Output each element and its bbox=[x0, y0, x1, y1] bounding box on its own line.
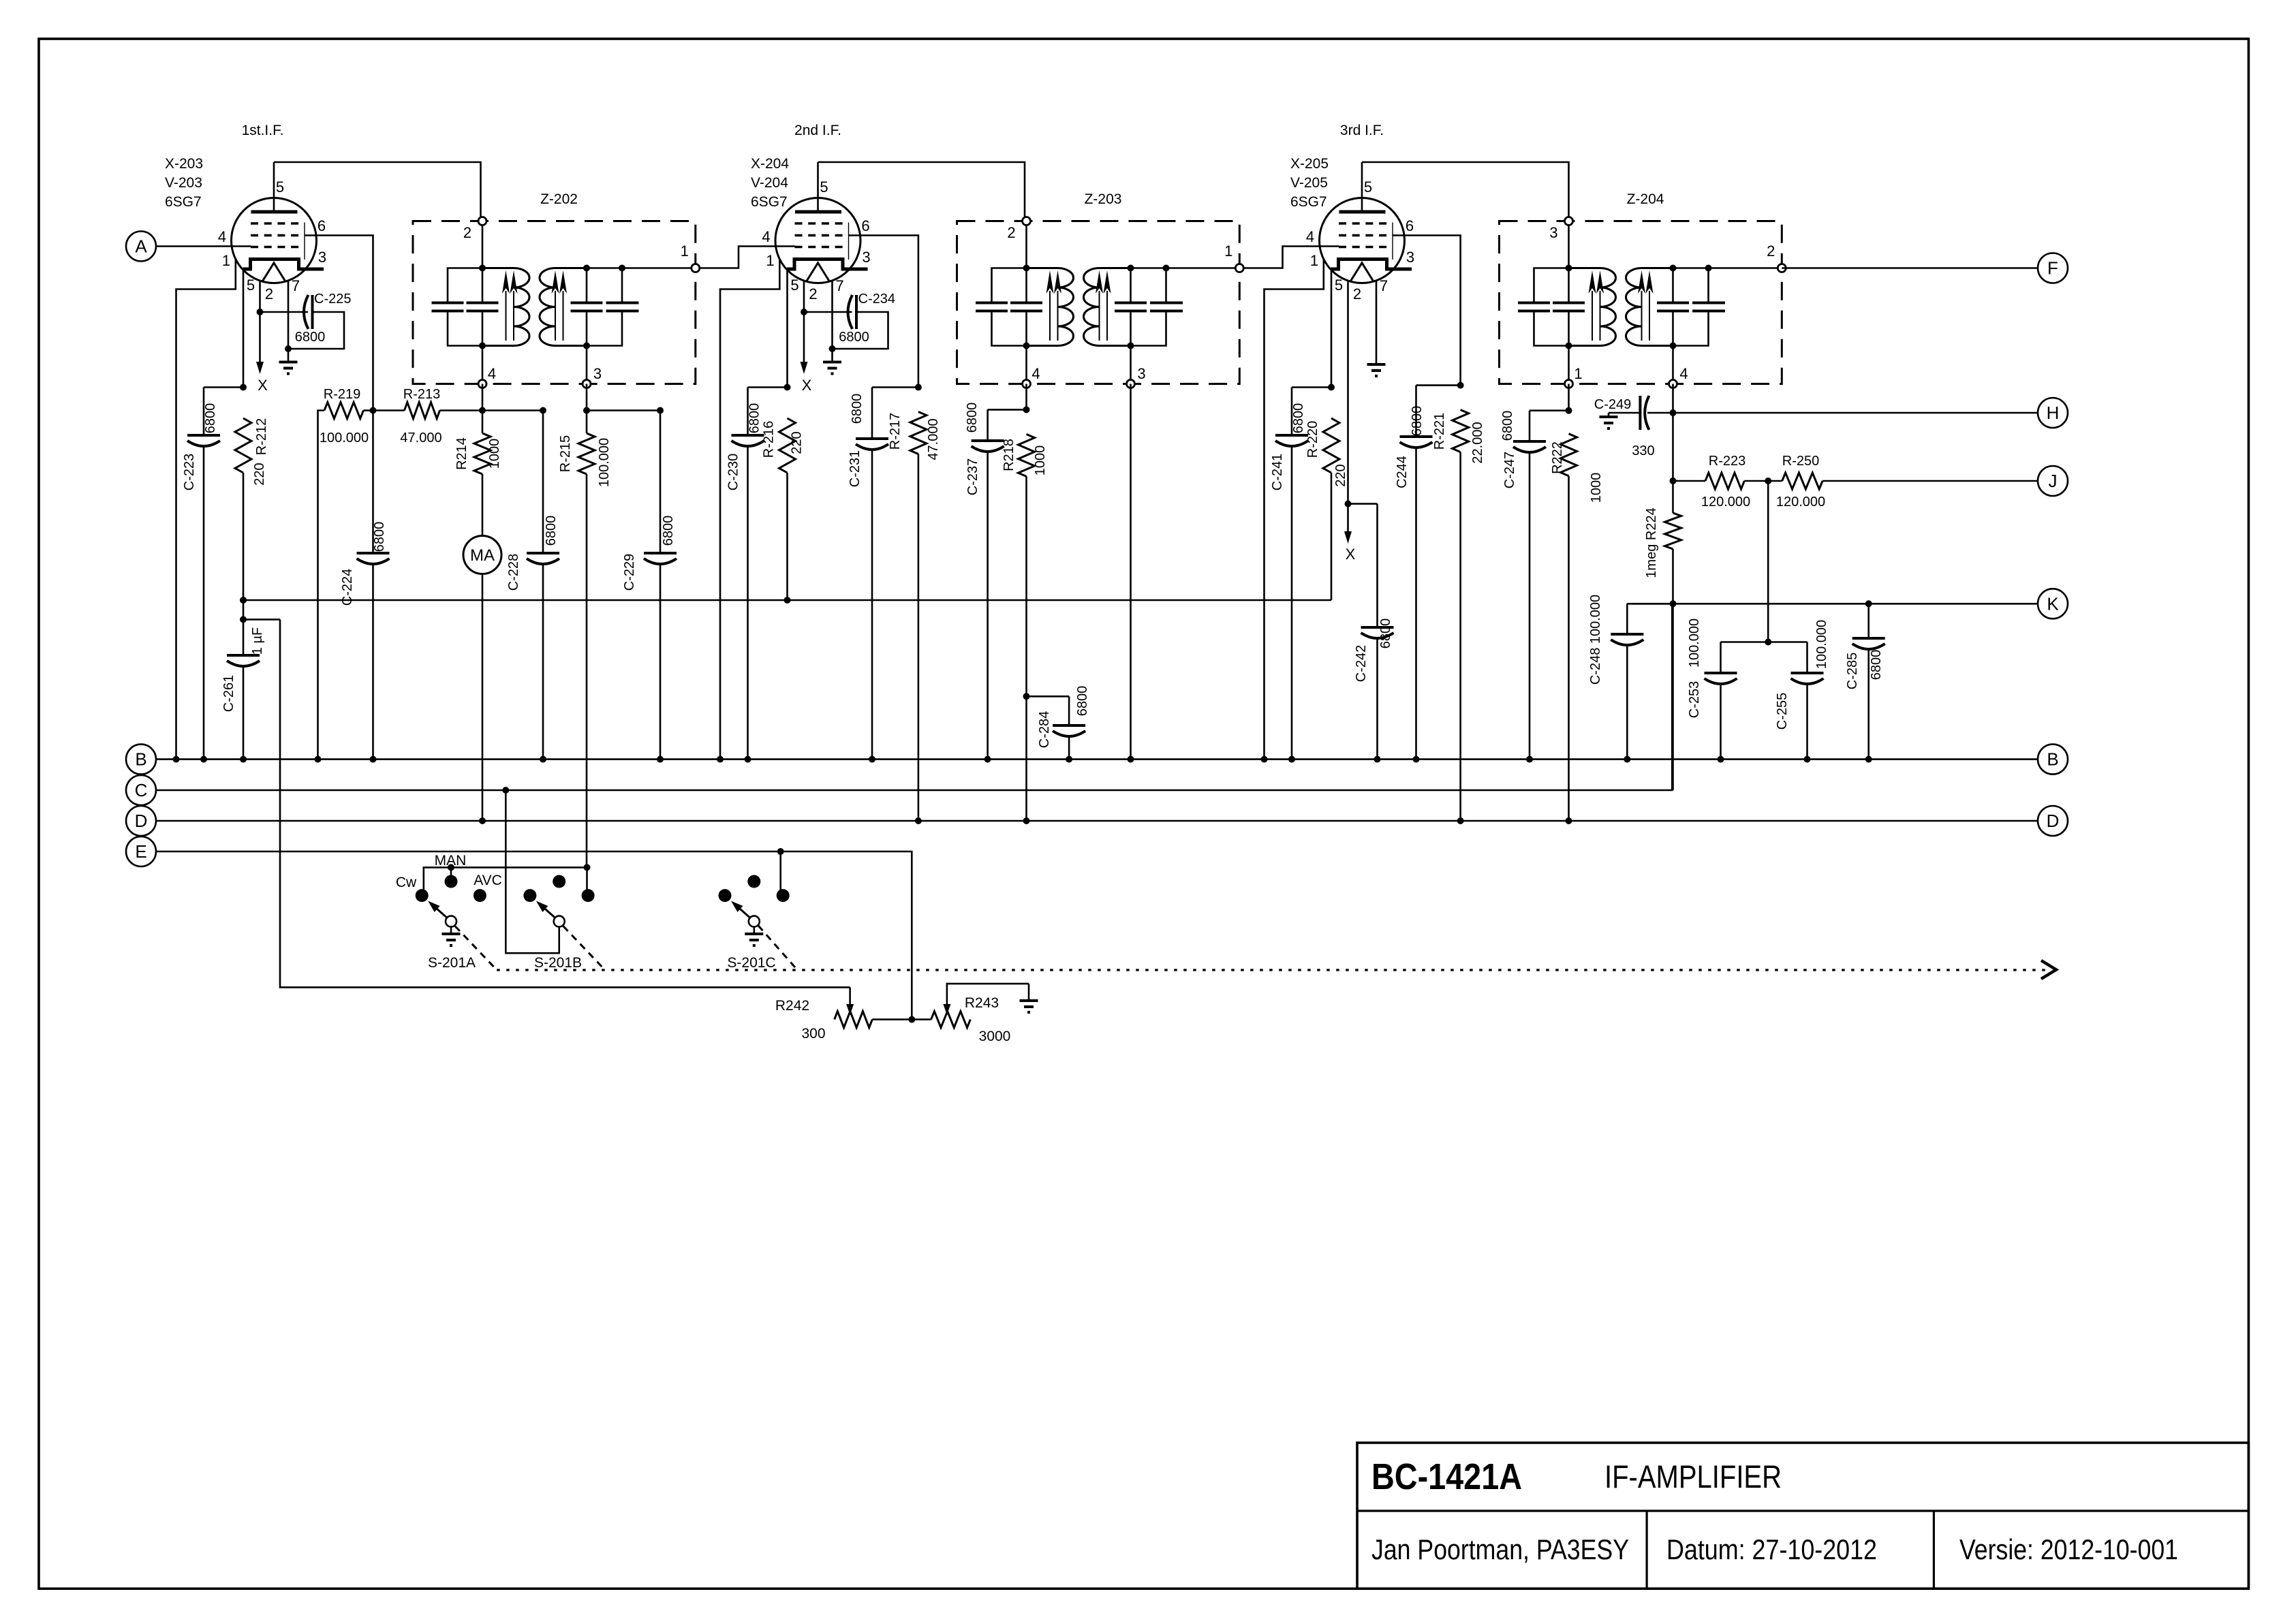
svg-text:C-224: C-224 bbox=[340, 569, 355, 606]
svg-text:220: 220 bbox=[790, 431, 805, 454]
wire tube1 pin6 bbox=[305, 236, 373, 411]
svg-text:4: 4 bbox=[1306, 228, 1314, 245]
junction dot primary top bbox=[479, 265, 486, 272]
capacitor C-253 bbox=[1705, 672, 1737, 674]
junction dot C-261 node bbox=[240, 616, 247, 623]
secondary slug arrows bbox=[1641, 291, 1643, 341]
terminal B bbox=[126, 745, 156, 775]
X arrow (stage 3) bbox=[1347, 504, 1349, 535]
junction dot K node bbox=[1670, 600, 1677, 607]
resistor R-212 lower lead bbox=[243, 473, 245, 600]
junction dot pin6 node (stage 3) bbox=[1457, 382, 1464, 389]
junction dot MAN-A stub bbox=[448, 864, 454, 871]
terminal B bbox=[2038, 745, 2068, 775]
capacitor C-248 top wire bbox=[1627, 603, 1673, 605]
resistor R-216 bbox=[779, 418, 796, 473]
ground under pin7 (stage 3) bbox=[1367, 363, 1386, 366]
tube circle X-203 (stage 1) bbox=[232, 198, 317, 283]
pin7 lead (stage 2) bbox=[831, 281, 833, 349]
pin 4 terminal bbox=[1669, 380, 1677, 388]
junction dot cathode node (stage 1) bbox=[240, 384, 247, 391]
junction dot secondary bottom bbox=[1128, 343, 1134, 349]
grid dashes row 1 (stage 3) bbox=[1339, 222, 1387, 225]
svg-text:220: 220 bbox=[1333, 464, 1348, 486]
pin1 wire to bus B (stage 2) bbox=[720, 260, 779, 760]
wire cathode node to C-230 bbox=[748, 386, 788, 388]
svg-text:1: 1 bbox=[1310, 252, 1318, 269]
junction dot secondary bottom bbox=[1670, 343, 1677, 349]
trimmer capacitor primary left bbox=[432, 302, 464, 304]
pin 1 terminal bbox=[1235, 264, 1243, 272]
resistor R214 bbox=[474, 433, 491, 474]
junction dot C-229 on B bbox=[657, 756, 664, 763]
svg-text:6800: 6800 bbox=[372, 522, 387, 552]
wire Z-203 pin3 to B bbox=[1130, 384, 1132, 760]
secondary main wire lower bbox=[1130, 311, 1132, 384]
svg-text:V-204: V-204 bbox=[751, 175, 788, 191]
svg-text:C-248 100.000: C-248 100.000 bbox=[1588, 595, 1603, 685]
grid tie line (stage 2) bbox=[848, 223, 850, 260]
secondary top wire to right pin bbox=[587, 267, 696, 269]
svg-text:R-215: R-215 bbox=[558, 435, 573, 472]
resistor R224 bbox=[1665, 513, 1681, 549]
junction dot R-223 R-250 node bbox=[1765, 478, 1771, 484]
ground under S-201A pivot bbox=[450, 927, 452, 934]
plate top wire to transformer (stage 3) bbox=[1362, 162, 1569, 221]
primary left cap loop wire bbox=[1534, 268, 1569, 303]
svg-text:R218: R218 bbox=[1002, 439, 1017, 471]
secondary main wire lower bbox=[1672, 311, 1674, 384]
resistor R-220 lower lead bbox=[1331, 473, 1333, 600]
junction dot R218 on D bbox=[1023, 817, 1030, 824]
svg-text:5: 5 bbox=[820, 178, 828, 195]
capacitor C-224 lead bbox=[372, 411, 374, 552]
junction dot Z-203 pin4 node bbox=[1023, 406, 1030, 413]
junction dot R222 on D bbox=[1566, 817, 1572, 824]
svg-text:7: 7 bbox=[292, 277, 300, 294]
svg-text:H: H bbox=[2047, 403, 2060, 423]
svg-text:R222: R222 bbox=[1550, 441, 1565, 474]
svg-text:C-242: C-242 bbox=[1354, 645, 1369, 682]
svg-text:4: 4 bbox=[218, 228, 226, 245]
terminal F bbox=[2038, 253, 2068, 283]
svg-text:1: 1 bbox=[681, 243, 689, 260]
tube circle X-205 (stage 3) bbox=[1320, 198, 1405, 283]
bus B wire bbox=[156, 758, 2038, 760]
svg-text:3rd I.F.: 3rd I.F. bbox=[1340, 123, 1384, 138]
resistor R-223 bbox=[1705, 473, 1744, 489]
svg-text:D: D bbox=[2047, 811, 2060, 831]
X arrow (stage 2) bbox=[803, 312, 805, 365]
capacitor C-229 top wire bbox=[587, 409, 660, 411]
svg-text:5: 5 bbox=[1364, 178, 1372, 195]
primary main wire upper bbox=[1025, 221, 1027, 303]
junction dot secondary cap branch bbox=[1163, 265, 1170, 272]
junction dot C-285 on B bbox=[1865, 756, 1872, 763]
svg-text:6800: 6800 bbox=[1410, 406, 1425, 437]
cathode bar (stage 2) bbox=[787, 260, 868, 270]
junction dot pin2 node (stage 1) bbox=[257, 309, 264, 315]
svg-text:6800: 6800 bbox=[661, 516, 676, 546]
capacitor C244 lead bbox=[1415, 386, 1417, 435]
wire Z-203 pin1 to tube3 grid bbox=[1239, 247, 1339, 268]
svg-text:E: E bbox=[135, 841, 146, 862]
svg-text:1: 1 bbox=[766, 252, 774, 269]
junction dot R-217 on D bbox=[915, 817, 922, 824]
junction dot C244 on B bbox=[1413, 756, 1420, 763]
capacitor C-225 bbox=[304, 295, 309, 329]
terminal H bbox=[2038, 398, 2068, 428]
capacitor C-247 lead bbox=[1529, 411, 1531, 440]
primary main wire lower bbox=[1568, 311, 1570, 384]
junction dot cap bracket bbox=[1765, 639, 1771, 646]
capacitor C-230 lead bbox=[747, 388, 749, 435]
junction dot cathode node (stage 3) bbox=[1328, 384, 1335, 391]
svg-text:3000: 3000 bbox=[979, 1029, 1011, 1044]
capacitor C-261 bbox=[227, 654, 260, 657]
plate pin5 lead (stage 2) bbox=[817, 162, 819, 210]
junction dot S-201C on E bbox=[777, 848, 784, 855]
svg-text:Datum: 27-10-2012: Datum: 27-10-2012 bbox=[1666, 1533, 1877, 1565]
svg-text:C-247: C-247 bbox=[1502, 452, 1517, 488]
junction dot pin7 ground node (stage 1) bbox=[285, 345, 292, 352]
pin 3 terminal bbox=[583, 380, 591, 388]
capacitor C-225 wire bbox=[260, 311, 309, 313]
svg-text:2: 2 bbox=[1767, 243, 1775, 260]
junction dot C-231 on B bbox=[869, 756, 875, 763]
switch S-201B wiper arrow bbox=[545, 909, 555, 918]
pin7 lead (stage 1) bbox=[288, 281, 290, 349]
secondary right cap branch wire bbox=[1707, 268, 1709, 303]
wire Z-202 pin3 to R-215 bbox=[586, 384, 588, 411]
svg-text:C-285: C-285 bbox=[1845, 653, 1860, 689]
svg-text:C-249: C-249 bbox=[1594, 397, 1631, 412]
title block divider bbox=[1357, 1510, 2248, 1512]
wire K node down to C bus bbox=[1672, 604, 1674, 790]
primary main wire lower bbox=[1025, 311, 1027, 384]
capacitor C244 lower lead bbox=[1415, 447, 1417, 760]
svg-text:7: 7 bbox=[835, 277, 843, 294]
capacitor C-228 lower lead bbox=[542, 563, 544, 760]
capacitor C-247 top wire bbox=[1530, 409, 1569, 411]
svg-text:C-225: C-225 bbox=[314, 292, 351, 307]
resistor R-217 lower lead bbox=[918, 454, 920, 822]
grid dashes row 2 (stage 3) bbox=[1339, 234, 1387, 237]
switch S-201B AVC contact bbox=[582, 889, 595, 902]
svg-text:X-205: X-205 bbox=[1290, 156, 1329, 172]
capacitor C-285 lower lead bbox=[1867, 648, 1870, 760]
svg-text:6800: 6800 bbox=[1075, 686, 1090, 717]
svg-text:1 µF: 1 µF bbox=[250, 627, 265, 655]
svg-text:1000: 1000 bbox=[1589, 473, 1604, 503]
terminal D bbox=[126, 806, 156, 836]
junction dot C-241 on B bbox=[1288, 756, 1295, 763]
capacitor C-228 bbox=[527, 552, 559, 554]
svg-text:6800: 6800 bbox=[1378, 619, 1393, 649]
junction dot secondary bottom bbox=[583, 343, 590, 349]
potentiometer R243 bbox=[931, 1012, 971, 1028]
pin 2 terminal bbox=[478, 217, 486, 225]
capacitor C-285 bbox=[1852, 637, 1885, 640]
capacitor C-255 lower lead bbox=[1806, 683, 1808, 760]
svg-text:6800: 6800 bbox=[1869, 650, 1884, 681]
switch S-201C AVC contact bbox=[777, 889, 790, 902]
capacitor C-249 wire bbox=[1647, 412, 1673, 414]
primary main wire lower bbox=[482, 311, 484, 384]
pin 2 terminal bbox=[1023, 217, 1031, 225]
junction dot secondary cap branch bbox=[1705, 265, 1712, 272]
grid tie line (stage 1) bbox=[304, 223, 305, 260]
svg-text:7: 7 bbox=[1380, 277, 1388, 294]
capacitor C-229 lead bbox=[660, 411, 662, 552]
svg-text:J: J bbox=[2049, 471, 2058, 491]
switch S-201C pivot bbox=[749, 916, 760, 927]
svg-text:100.000: 100.000 bbox=[320, 431, 369, 445]
junction dot bracket R-215 corner bbox=[584, 864, 591, 871]
terminal D bbox=[2038, 806, 2068, 836]
svg-text:X: X bbox=[258, 377, 268, 394]
bus E wire bbox=[156, 851, 912, 1020]
svg-text:1meg R224: 1meg R224 bbox=[1644, 507, 1659, 578]
tube circle X-204 (stage 2) bbox=[775, 198, 860, 283]
capacitor C-255 bbox=[1791, 672, 1824, 674]
transformer Z-203 dashed box bbox=[957, 221, 1240, 384]
pin1 wire to bus B (stage 1) bbox=[176, 260, 236, 760]
dotted control line with arrow bbox=[497, 969, 2047, 971]
pin2 lead (stage 2) bbox=[803, 281, 805, 312]
primary main wire upper bbox=[1568, 221, 1570, 303]
svg-text:S-201A: S-201A bbox=[428, 955, 476, 971]
dashed wiper link S-201C bbox=[758, 926, 798, 970]
junction dot pin7 ground node (stage 2) bbox=[829, 345, 836, 352]
secondary winding coil bbox=[1084, 268, 1131, 346]
svg-text:IF-AMPLIFIER: IF-AMPLIFIER bbox=[1604, 1458, 1782, 1495]
ground under pin7 (stage 2) bbox=[831, 349, 833, 362]
wire cathode node to C-241 bbox=[1292, 386, 1331, 388]
grid dashes row 3 (stage 2) bbox=[795, 246, 843, 249]
secondary top wire to right pin bbox=[1131, 267, 1240, 269]
pin2 lead with node (stage 3) bbox=[1347, 281, 1349, 504]
wire down to switch row bbox=[280, 619, 850, 987]
cathode bar (stage 1) bbox=[243, 260, 324, 270]
svg-text:R-220: R-220 bbox=[1305, 421, 1320, 458]
resistor R222 bbox=[1561, 434, 1577, 476]
svg-text:3: 3 bbox=[1406, 249, 1414, 266]
pin1 wire to bus B (stage 3) bbox=[1265, 260, 1324, 760]
wire bracket to AVC-B contact bbox=[586, 867, 588, 895]
junction dot primary bottom bbox=[1023, 343, 1030, 349]
capacitor C-284 bbox=[1053, 724, 1085, 727]
junction dot C-242 on B bbox=[1374, 756, 1381, 763]
svg-text:6800: 6800 bbox=[544, 516, 559, 546]
wire A to tube1 grid bbox=[156, 245, 251, 247]
junction dot J node bbox=[1670, 478, 1677, 484]
resistor R-219 right lead bbox=[364, 409, 373, 411]
resistor R218 lower lead bbox=[1025, 476, 1027, 821]
secondary right cap branch wire bbox=[621, 268, 623, 303]
svg-text:MA: MA bbox=[470, 546, 495, 565]
capacitor C-241 lead bbox=[1291, 388, 1293, 435]
svg-text:1: 1 bbox=[1574, 365, 1582, 382]
capacitor C-242 lead bbox=[1376, 504, 1378, 626]
capacitor C-284 lower lead bbox=[1068, 736, 1070, 760]
wire MA to bus D bbox=[482, 574, 484, 822]
capacitor C-234 wire bbox=[804, 311, 852, 313]
capacitor C-225 loop wire bbox=[288, 312, 344, 349]
secondary winding coil bbox=[540, 268, 587, 346]
capacitor C-284 lead bbox=[1068, 696, 1070, 724]
svg-text:B: B bbox=[135, 749, 146, 770]
capacitor C-253 lower lead bbox=[1720, 683, 1722, 760]
grid dashes row 1 (stage 2) bbox=[795, 222, 843, 225]
trimmer capacitor primary main bbox=[1010, 302, 1042, 304]
svg-text:F: F bbox=[2047, 258, 2058, 279]
svg-text:4: 4 bbox=[488, 365, 496, 382]
svg-text:C-253: C-253 bbox=[1687, 681, 1702, 718]
primary main wire upper bbox=[482, 221, 484, 303]
junction dot MA on D bbox=[479, 817, 486, 824]
trimmer capacitor secondary right bbox=[1692, 302, 1725, 304]
junction dot Z-203 pin3 on B bbox=[1128, 756, 1134, 763]
svg-text:6800: 6800 bbox=[965, 403, 980, 433]
wire J node down to cap bracket bbox=[1767, 481, 1769, 642]
plate pin5 lead (stage 1) bbox=[273, 162, 275, 210]
title block vertical divider 2 bbox=[1933, 1511, 1935, 1589]
grid dashes row 2 (stage 2) bbox=[795, 234, 843, 237]
switch S-201C Cw contact bbox=[719, 889, 732, 902]
svg-text:3: 3 bbox=[862, 249, 870, 266]
svg-text:6: 6 bbox=[1406, 217, 1414, 234]
resistor R-217 bbox=[910, 412, 927, 454]
svg-text:R-217: R-217 bbox=[888, 413, 903, 450]
capacitor C-255 lead bbox=[1806, 642, 1808, 672]
junction dot C-237 on B bbox=[984, 756, 991, 763]
junction dot Z-204 pin1 node bbox=[1566, 407, 1572, 414]
junction dot R-215 node bbox=[583, 407, 590, 414]
switch S-201B Cw contact bbox=[523, 889, 536, 902]
svg-text:X: X bbox=[802, 377, 812, 394]
wire H node to terminal H bbox=[1673, 412, 2038, 414]
capacitor C-230 bbox=[732, 434, 764, 437]
secondary slug arrows bbox=[555, 291, 556, 341]
junction dot R-216 on K bbox=[784, 597, 791, 604]
junction dot pin2 node (stage 3) bbox=[1345, 501, 1352, 507]
anode plate bar (stage 3) bbox=[1339, 210, 1386, 214]
pin 3 terminal bbox=[1127, 380, 1135, 388]
svg-text:3: 3 bbox=[1549, 224, 1557, 241]
secondary winding coil bbox=[1626, 268, 1673, 346]
pin 4 terminal bbox=[1023, 380, 1031, 388]
plate pin5 lead (stage 3) bbox=[1361, 162, 1363, 210]
svg-text:5: 5 bbox=[247, 277, 255, 294]
junction dot C-255 on B bbox=[1804, 756, 1811, 763]
svg-text:AVC: AVC bbox=[474, 873, 502, 888]
svg-text:C: C bbox=[135, 780, 148, 800]
junction dot pin1 on B (stage 2) bbox=[717, 756, 724, 763]
secondary right cap branch wire bbox=[1165, 268, 1167, 303]
junction dot secondary cap branch bbox=[619, 265, 625, 272]
switch S-201A wiper arrow bbox=[437, 909, 447, 918]
svg-text:1: 1 bbox=[222, 252, 230, 269]
capacitor C-248 bbox=[1611, 633, 1643, 636]
capacitor C-228 lead bbox=[542, 411, 544, 552]
svg-text:1000: 1000 bbox=[1033, 445, 1048, 476]
resistor R-215 bbox=[578, 433, 595, 474]
capacitor C-234 loop wire bbox=[833, 312, 888, 349]
svg-text:C-229: C-229 bbox=[622, 554, 637, 591]
grid dashes row 3 (stage 1) bbox=[251, 246, 299, 249]
svg-text:B: B bbox=[2047, 749, 2058, 770]
svg-text:4: 4 bbox=[762, 228, 770, 245]
svg-text:Z-202: Z-202 bbox=[540, 191, 578, 207]
cathode pin5 lead (stage 3) bbox=[1331, 269, 1333, 388]
svg-text:R-221: R-221 bbox=[1432, 413, 1447, 450]
svg-text:S-201C: S-201C bbox=[727, 955, 775, 971]
cathode pin5 lead (stage 2) bbox=[786, 269, 788, 388]
transformer Z-202 dashed box bbox=[413, 221, 696, 384]
svg-text:1: 1 bbox=[1224, 243, 1232, 260]
resistor R-223 leads bbox=[1673, 480, 1706, 482]
svg-text:6800: 6800 bbox=[203, 403, 218, 434]
svg-text:Jan Poortman, PA3ESY: Jan Poortman, PA3ESY bbox=[1371, 1533, 1629, 1565]
junction dot E line to pots bbox=[908, 1016, 915, 1023]
wire C bus to S-201B pivot bbox=[506, 790, 559, 953]
svg-text:1st.I.F.: 1st.I.F. bbox=[242, 123, 284, 138]
svg-text:6800: 6800 bbox=[850, 394, 865, 424]
switch S-201C wiper arrow bbox=[740, 909, 749, 918]
title block box bbox=[1357, 1443, 2248, 1589]
pin 3 terminal bbox=[1565, 217, 1573, 225]
capacitor C-224 bbox=[357, 552, 390, 554]
svg-text:1000: 1000 bbox=[487, 439, 502, 469]
svg-text:2: 2 bbox=[463, 224, 471, 241]
capacitor C-231 lower lead bbox=[871, 449, 873, 760]
svg-text:6800: 6800 bbox=[839, 330, 869, 345]
resistor R214 leads bbox=[482, 411, 484, 434]
capacitor C244 bbox=[1400, 435, 1433, 438]
svg-text:C-255: C-255 bbox=[1775, 693, 1790, 730]
junction dot Z-202 pin4 node bbox=[479, 407, 486, 414]
svg-text:C-228: C-228 bbox=[506, 554, 521, 591]
capacitor C-224 lower lead bbox=[372, 563, 374, 760]
svg-text:6SG7: 6SG7 bbox=[165, 194, 202, 210]
capacitor C-247 bbox=[1513, 440, 1546, 443]
svg-text:47.000: 47.000 bbox=[926, 418, 941, 460]
junction dot C-229 top bbox=[657, 407, 664, 414]
junction dot R-212 K node bbox=[240, 597, 247, 604]
capacitor C-237 bbox=[972, 439, 1004, 442]
transformer Z-204 dashed box bbox=[1500, 221, 1782, 384]
svg-text:X: X bbox=[1346, 546, 1356, 563]
plate top wire to transformer (stage 1) bbox=[274, 162, 481, 221]
svg-text:2nd I.F.: 2nd I.F. bbox=[794, 123, 841, 138]
svg-text:C-230: C-230 bbox=[726, 454, 741, 490]
capacitor C-231 lead bbox=[871, 388, 873, 438]
svg-text:BC-1421A: BC-1421A bbox=[1371, 1456, 1522, 1497]
svg-text:220: 220 bbox=[252, 463, 267, 485]
junction dot R-219 on B bbox=[315, 756, 322, 763]
capacitor C-249 left wire bbox=[1609, 412, 1640, 414]
svg-text:47.000: 47.000 bbox=[400, 431, 441, 445]
svg-text:3: 3 bbox=[318, 249, 326, 266]
junction dot C-228 top bbox=[540, 407, 546, 414]
capacitor C-223 lower lead bbox=[203, 445, 205, 760]
ground under S-201C pivot bbox=[754, 926, 756, 934]
switch S-201B pivot bbox=[554, 916, 565, 927]
capacitor C-231 bbox=[856, 437, 888, 440]
svg-text:5: 5 bbox=[790, 277, 798, 294]
grid dashes row 3 (stage 3) bbox=[1339, 246, 1387, 249]
